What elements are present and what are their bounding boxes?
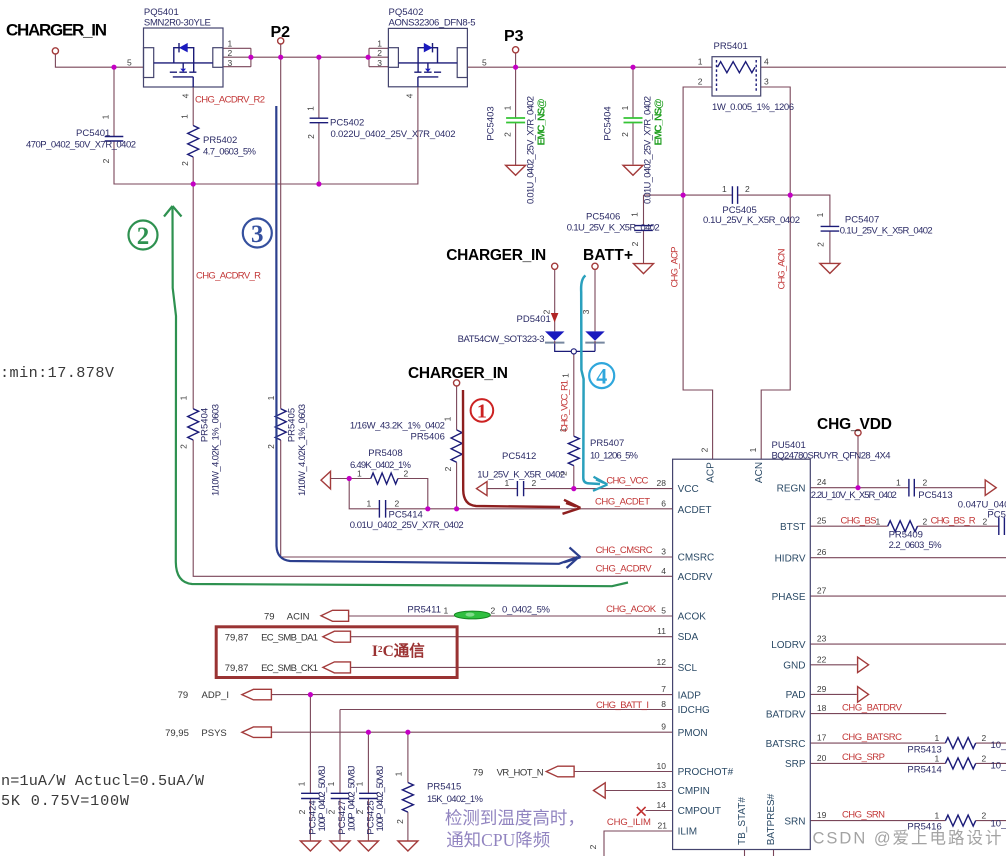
wire net CHG_ACN: [738, 87, 830, 459]
svg-text:ACN: ACN: [754, 462, 765, 483]
wire PC5424 to ground: [309, 799, 311, 842]
wire PHASE: [810, 595, 1006, 597]
svg-text:SCL: SCL: [678, 663, 698, 674]
svg-text:12: 12: [657, 657, 667, 667]
ground below PC5403: [506, 165, 526, 175]
svg-text:1: 1: [101, 114, 111, 119]
svg-text:BATDRV: BATDRV: [766, 709, 806, 720]
capacitor PC5414 0.01U: [350, 499, 464, 531]
annotation circled 3 (navy): [243, 219, 272, 249]
svg-text:PC5412: PC5412: [502, 451, 536, 462]
wire net CHG_SRN: [810, 820, 1006, 822]
wire PC5425 to ground: [367, 799, 369, 842]
svg-text:BQ24780SRUYR_QFN28_4X4: BQ24780SRUYR_QFN28_4X4: [772, 451, 891, 462]
IC pin numbers (right side): [817, 477, 827, 820]
svg-text:1: 1: [935, 753, 940, 763]
svg-text:15K_0402_1%: 15K_0402_1%: [427, 794, 484, 805]
svg-text:TB_STAT#: TB_STAT#: [737, 797, 748, 845]
svg-text:BATPRES#: BATPRES#: [766, 793, 777, 845]
ground below PC5427: [330, 841, 350, 851]
svg-text:1/10W_4.02K_1%_0603: 1/10W_4.02K_1%_0603: [297, 404, 308, 496]
resistor PR5409 2.2 (BTST): [876, 517, 988, 552]
IC pin names (right): [766, 483, 806, 827]
svg-text:0_0402_5%: 0_0402_5%: [502, 605, 551, 616]
svg-text:CHG_ACDRV_R2: CHG_ACDRV_R2: [195, 95, 265, 106]
svg-text:17: 17: [817, 733, 827, 743]
svg-text:2: 2: [137, 223, 150, 250]
svg-text:79,95: 79,95: [165, 728, 189, 739]
svg-text:ADP_I: ADP_I: [202, 690, 229, 701]
transistor PQ5401 SMN2R0-30YLE (P-FET with body diode): [127, 7, 233, 98]
svg-text:2: 2: [377, 48, 382, 58]
svg-text:PC5401: PC5401: [76, 128, 110, 139]
wire net CHG_BATT_I to IDCHG: [340, 710, 673, 794]
wire net EC_SMB_DA1 to SDA: [350, 636, 672, 638]
svg-text:PR5409: PR5409: [889, 530, 923, 541]
annotation green line 2 (ACDRV path) with up arrow: [164, 206, 628, 586]
svg-text:AONS32306_DFN8-5: AONS32306_DFN8-5: [389, 18, 476, 29]
junction dots (solder points): [111, 55, 860, 735]
port arrow (output) REGN right edge: [985, 480, 996, 496]
svg-text:CHG_ACN: CHG_ACN: [777, 248, 788, 289]
svg-text:2: 2: [503, 132, 513, 137]
svg-text:CHG_CMSRC: CHG_CMSRC: [596, 545, 653, 556]
wire net P2 (common source): [223, 44, 673, 557]
svg-text:ACP: ACP: [706, 462, 717, 483]
terminal P3: [513, 47, 519, 53]
svg-text:SRP: SRP: [785, 759, 806, 770]
svg-text:CMSRC: CMSRC: [678, 553, 715, 564]
wire HIDRV: [810, 557, 1006, 559]
svg-text:1: 1: [896, 478, 901, 488]
svg-text:P3: P3: [504, 28, 524, 45]
wire net PSYS to PMON: [271, 732, 672, 793]
svg-text:4.7_0603_5%: 4.7_0603_5%: [203, 147, 257, 158]
PD5401 labels: [458, 309, 591, 378]
resistor PR5402 4.7: [180, 114, 257, 166]
resistor PR5406 43.2K: [350, 416, 462, 471]
svg-text:18: 18: [817, 703, 827, 713]
svg-text:2: 2: [745, 184, 750, 194]
svg-text:通知CPU降频: 通知CPU降频: [446, 830, 550, 850]
wire net ADP_I to IADP: [271, 695, 672, 794]
svg-text:2: 2: [404, 469, 409, 479]
port VR_HOT_N: [546, 766, 574, 777]
annotation I2C box: [216, 627, 457, 678]
svg-text:1: 1: [367, 499, 372, 509]
svg-text:10_1206_5%: 10_1206_5%: [590, 451, 639, 462]
svg-text:PQ5402: PQ5402: [389, 7, 424, 18]
svg-text:BTST: BTST: [780, 522, 806, 533]
svg-text:26: 26: [817, 547, 827, 557]
resistor PR5401 1W 0.005 sense (boxed): [698, 41, 794, 113]
svg-text:EC_SMB_CK1: EC_SMB_CK1: [261, 663, 318, 674]
svg-text:28: 28: [657, 478, 667, 488]
annotation green highlight ellipse over PR5411: [454, 611, 490, 619]
svg-text:PD5401: PD5401: [517, 314, 551, 325]
svg-text:5: 5: [661, 606, 666, 616]
port PSYS: [242, 727, 272, 738]
svg-text:1/16W_43.2K_1%_0402: 1/16W_43.2K_1%_0402: [350, 421, 445, 432]
svg-text:22: 22: [817, 654, 827, 664]
svg-text:2: 2: [588, 844, 598, 849]
svg-text:2: 2: [306, 134, 316, 139]
IC pin numbers (left side): [657, 478, 668, 831]
wire CMPOUT no-connect stub: [646, 810, 673, 812]
wire net CHG_ACOK / ACIN row: [349, 615, 673, 617]
svg-text:1: 1: [377, 39, 382, 49]
capacitor PC5413 2.2U (REGN): [811, 478, 953, 502]
wire net CHG_ACDRV_R2 bus (bottom of PQ5401/PQ5402 gates): [114, 87, 418, 184]
terminal CHARGER_IN (middle): [454, 380, 460, 386]
svg-text:2: 2: [395, 499, 400, 509]
resistor PR5404 4.02K: [179, 395, 222, 496]
svg-text:6: 6: [661, 498, 666, 508]
IC pin numbers (top rotated): [700, 447, 759, 452]
svg-text:PHASE: PHASE: [772, 592, 806, 603]
svg-text:P2: P2: [271, 24, 291, 41]
capacitor PC5403 0.01U EMC: [486, 96, 548, 204]
svg-text:2: 2: [982, 811, 987, 821]
svg-text:19: 19: [817, 810, 827, 820]
svg-text:0.1U_25V_K_X5R_0402: 0.1U_25V_K_X5R_0402: [567, 223, 660, 234]
terminal CHARGER_IN (top middle): [552, 263, 558, 269]
svg-text:CSDN @爱上电路设计: CSDN @爱上电路设计: [813, 829, 1002, 848]
svg-text:ACOK: ACOK: [678, 612, 707, 623]
capacitor PC5405 0.1U: [703, 184, 800, 226]
capacitor PC5406 0.1U: [567, 212, 660, 247]
svg-text:0.1U_25V_K_X5R_0402: 0.1U_25V_K_X5R_0402: [840, 226, 933, 237]
resistor PR5413 10 (BATSRC): [907, 733, 1006, 756]
ground below PR5415: [398, 841, 418, 851]
svg-text:5: 5: [482, 58, 487, 68]
svg-text:1: 1: [935, 811, 940, 821]
svg-text:PU5401: PU5401: [772, 440, 806, 451]
svg-text:14: 14: [657, 800, 667, 810]
svg-text::min:17.878V: :min:17.878V: [0, 364, 115, 382]
svg-text:0.1U_25V_K_X5R_0402: 0.1U_25V_K_X5R_0402: [703, 215, 800, 226]
svg-text:2: 2: [443, 466, 453, 471]
svg-text:1: 1: [306, 106, 316, 111]
resistor PR5408 6.49K: [350, 448, 412, 484]
svg-text:3: 3: [377, 58, 382, 68]
svg-text:2: 2: [327, 809, 337, 814]
svg-text:10_0: 10_0: [991, 760, 1006, 771]
wire mid CHARGER_IN to PR5406: [456, 386, 458, 509]
svg-text:3: 3: [661, 547, 666, 557]
svg-text:1: 1: [443, 416, 453, 421]
svg-text:2: 2: [180, 161, 190, 166]
svg-text:1: 1: [698, 57, 703, 67]
resistor PR5405 4.02K: [266, 395, 308, 496]
svg-text:1W_0.005_1%_1206: 1W_0.005_1%_1206: [712, 102, 794, 113]
port arrow (input) for PR5408 row: [321, 471, 331, 489]
wire PC5406 to ground: [643, 230, 645, 263]
port arrow for CHG_VCC row (PC5412): [477, 482, 488, 496]
svg-text:79: 79: [178, 690, 189, 701]
IC pin names (left): [678, 484, 734, 838]
resistor PR5414 10 (SRP): [907, 753, 1006, 775]
svg-text:PC5413: PC5413: [918, 490, 952, 501]
wire net VR_HOT_N to PROCHOT#: [574, 771, 673, 773]
wire PC5427 to ground: [339, 799, 341, 842]
svg-text:100P_0402_50V8J: 100P_0402_50V8J: [346, 765, 357, 831]
port arrow CMPIN: [594, 783, 606, 799]
svg-text:3: 3: [764, 77, 769, 87]
svg-text:9: 9: [661, 722, 666, 732]
svg-text:1: 1: [620, 105, 630, 110]
svg-text:PR5406: PR5406: [411, 432, 445, 443]
annotation circled 1 (red): [471, 399, 494, 422]
svg-text:79: 79: [264, 612, 275, 623]
svg-text:CHG_VCC: CHG_VCC: [606, 476, 648, 487]
svg-text:2: 2: [179, 444, 189, 449]
svg-text:CHG_VCC_R1: CHG_VCC_R1: [560, 380, 571, 432]
svg-text:1/10W_4.02K_1%_0603: 1/10W_4.02K_1%_0603: [211, 404, 222, 496]
svg-text:PR5402: PR5402: [203, 135, 237, 146]
svg-text:1U_25V_K_X5R_0402: 1U_25V_K_X5R_0402: [477, 470, 565, 481]
svg-text:EMC_NS@: EMC_NS@: [535, 99, 547, 146]
capacitor PC5424 100P: [296, 765, 327, 834]
svg-text:3: 3: [228, 58, 233, 68]
wire BATPRES# bottom stub: [773, 850, 775, 857]
svg-text:BATT+: BATT+: [583, 247, 633, 264]
capacitor PC5407 0.1U: [815, 212, 933, 247]
wire BATT+ to PD5401 anode 3: [594, 270, 596, 332]
svg-text:1: 1: [354, 781, 364, 786]
IC rotated pin names ACP ACN TB_STAT# BATPRES#: [706, 462, 777, 845]
svg-text:100P_0402_50V8J: 100P_0402_50V8J: [375, 765, 386, 831]
svg-text:BATSRC: BATSRC: [766, 739, 806, 750]
wire LODRV: [810, 643, 1006, 645]
svg-text:CHARGER_IN: CHARGER_IN: [6, 21, 107, 40]
svg-text:1: 1: [326, 781, 336, 786]
svg-text:CHG_ACOK: CHG_ACOK: [606, 604, 657, 615]
svg-text:11: 11: [657, 626, 666, 636]
port ADP_I: [242, 689, 272, 700]
svg-text:2: 2: [630, 241, 640, 246]
annotation circled 2 (green): [129, 221, 158, 251]
svg-text:LODRV: LODRV: [771, 640, 806, 651]
port EC_SMB_DA1: [323, 631, 351, 642]
svg-text:3: 3: [251, 221, 264, 248]
wire net ACDET row (PR5408 / PC5414): [330, 479, 672, 509]
svg-text:CMPIN: CMPIN: [678, 786, 710, 797]
svg-text:2: 2: [355, 809, 365, 814]
annotation red down-arrow on CHARGER_IN stub: [551, 313, 559, 323]
svg-text:PR5405: PR5405: [286, 408, 297, 442]
svg-text:CHG_BATSRC: CHG_BATSRC: [842, 732, 902, 743]
svg-text:1: 1: [444, 606, 449, 616]
svg-text:1: 1: [815, 212, 825, 217]
annotation dark red line 1 (ACDET path) with right arrow: [463, 390, 581, 514]
svg-text:SMN2R0-30YLE: SMN2R0-30YLE: [144, 18, 211, 29]
svg-text:79,87: 79,87: [225, 632, 249, 643]
svg-text:ACDET: ACDET: [678, 505, 712, 516]
svg-text:2: 2: [923, 478, 928, 488]
wire CHARGER_IN net (top left): [55, 54, 143, 137]
svg-text:CMPOUT: CMPOUT: [678, 806, 721, 817]
svg-text:PR5408: PR5408: [368, 448, 402, 459]
svg-text:PC5404: PC5404: [603, 106, 614, 140]
svg-text:2: 2: [395, 819, 405, 824]
wire net CHG_ILIM: [604, 831, 673, 856]
wire net CHG_ACP: [644, 87, 733, 459]
wire net CHG_SRP: [810, 762, 1006, 764]
svg-text:I²C通信: I²C通信: [372, 641, 425, 660]
svg-text:PR5404: PR5404: [200, 408, 211, 442]
svg-text:2: 2: [816, 242, 826, 247]
wire net PR5405 lower segment on P2 line: [280, 407, 282, 410]
wire net CHG_ACDRV (left vertical + to pin 4): [193, 184, 672, 576]
svg-text:4: 4: [764, 57, 769, 67]
terminal BATT+: [592, 263, 598, 269]
svg-text:PAD: PAD: [786, 690, 806, 701]
wire PC5404 lower to ground: [632, 123, 634, 165]
svg-text:PC5407: PC5407: [845, 215, 879, 226]
svg-text:检测到温度高时，: 检测到温度高时，: [445, 808, 585, 828]
terminal CHARGER_IN (top-left): [52, 48, 58, 54]
svg-text:REGN: REGN: [777, 483, 806, 494]
svg-text:0.01U_0402_25V_X7R_0402: 0.01U_0402_25V_X7R_0402: [350, 520, 464, 531]
svg-text:PR5401: PR5401: [714, 41, 748, 52]
ground below PC5424: [300, 841, 320, 851]
ground below PC5406: [634, 264, 654, 274]
capacitor PC5425 100P: [354, 765, 385, 834]
svg-text:20: 20: [817, 753, 827, 763]
svg-text:29: 29: [817, 684, 827, 694]
annotation cyan line 4 (CHG_VCC path) with right arrow: [581, 276, 607, 491]
svg-text:PSYS: PSYS: [201, 728, 226, 739]
svg-text:CHG_ACP: CHG_ACP: [670, 247, 681, 288]
svg-text:1: 1: [180, 114, 190, 119]
svg-text:0.022U_0402_25V_X7R_0402: 0.022U_0402_25V_X7R_0402: [331, 129, 456, 140]
svg-text:EC_SMB_DA1: EC_SMB_DA1: [261, 632, 318, 643]
port EC_SMB_CK1: [323, 662, 351, 673]
svg-text:1: 1: [296, 781, 306, 786]
resistor PR5407 10_1206: [558, 427, 639, 476]
ground below PC5404: [623, 165, 643, 175]
resistor PR5416 10 (SRN): [907, 811, 1006, 833]
svg-text:SRN: SRN: [784, 816, 805, 827]
svg-text:24: 24: [817, 477, 827, 487]
port arrow GND pin 22: [858, 657, 869, 673]
terminal P2: [278, 38, 284, 44]
wire TB_STAT# bottom stub: [744, 850, 746, 857]
svg-text:1: 1: [748, 447, 758, 452]
annotation circled 4 (cyan): [589, 363, 614, 388]
port ACIN (off-page, input): [321, 610, 349, 621]
svg-text:PR5407: PR5407: [590, 438, 624, 449]
svg-text:4: 4: [596, 364, 607, 389]
svg-text:1: 1: [722, 184, 727, 194]
svg-text:IDCHG: IDCHG: [678, 705, 710, 716]
svg-text:79,87: 79,87: [225, 663, 249, 674]
wire PAD pin stub: [810, 693, 857, 695]
svg-text:HIDRV: HIDRV: [775, 553, 806, 564]
svg-text:PR5411: PR5411: [407, 605, 441, 616]
svg-text:4: 4: [181, 93, 191, 98]
svg-text:2: 2: [983, 517, 988, 527]
wire net EC_SMB_CK1 to SCL: [350, 666, 672, 668]
svg-text:2: 2: [532, 478, 537, 488]
capacitor PC5427 100P: [326, 765, 357, 834]
svg-text:SDA: SDA: [678, 632, 699, 643]
svg-text:CHG_SRP: CHG_SRP: [842, 752, 885, 763]
svg-text:1: 1: [503, 105, 513, 110]
port arrow PAD pin 29: [858, 687, 869, 703]
wire net P3 / CHARGER_IN_FILT (top): [467, 53, 1006, 118]
svg-text:IADP: IADP: [678, 690, 702, 701]
diode PD5401 BAT54CW dual (left half): [545, 331, 564, 343]
wire PC5407 to ground: [829, 231, 831, 263]
svg-text:CHG_SRN: CHG_SRN: [842, 810, 885, 821]
svg-text:5: 5: [127, 58, 132, 68]
svg-text:ACDRV: ACDRV: [678, 572, 713, 583]
svg-text:CHG_ACDRV: CHG_ACDRV: [596, 564, 653, 575]
svg-text:470P_0402_50V_X7R_0402: 470P_0402_50V_X7R_0402: [26, 140, 136, 151]
svg-text:1: 1: [266, 395, 276, 400]
svg-text:CHG_BS_R: CHG_BS_R: [931, 516, 976, 527]
svg-text:5K 0.75V=100W: 5K 0.75V=100W: [1, 792, 130, 810]
capacitor PC54xx 0.047U at right edge (BTST): [958, 500, 1006, 536]
capacitor PC5401 470P: [26, 114, 136, 163]
svg-text:10_0: 10_0: [991, 740, 1006, 751]
wire net CHG_VCC_R1 (diode common cathode to PR5407): [555, 344, 595, 489]
svg-text:CHG_ILIM: CHG_ILIM: [607, 817, 651, 828]
capacitor PC5402 0.022U: [306, 106, 456, 140]
svg-text:25: 25: [817, 516, 827, 526]
svg-text:CHG_ACDET: CHG_ACDET: [595, 497, 650, 508]
svg-text:1: 1: [228, 39, 233, 49]
svg-text:2: 2: [982, 753, 987, 763]
svg-text:CHG_BATT_I: CHG_BATT_I: [596, 700, 649, 711]
svg-text:PR5415: PR5415: [427, 782, 461, 793]
svg-text:CHARGER_IN: CHARGER_IN: [446, 247, 546, 264]
svg-text:2: 2: [266, 444, 276, 449]
svg-text:PR5414: PR5414: [907, 765, 941, 776]
svg-text:13: 13: [657, 780, 667, 790]
svg-text:79: 79: [473, 767, 484, 778]
svg-text:BAT54CW_SOT323-3: BAT54CW_SOT323-3: [458, 334, 545, 345]
svg-text:2: 2: [228, 48, 233, 58]
transistor PQ5402 AONS32306_DFN8-5 (mirrored): [377, 7, 487, 98]
svg-text:ACIN: ACIN: [287, 612, 310, 623]
svg-text:1: 1: [935, 733, 940, 743]
svg-text:PC5402: PC5402: [330, 118, 364, 129]
svg-text:2.2_0603_5%: 2.2_0603_5%: [889, 540, 943, 551]
svg-text:10_0: 10_0: [991, 819, 1006, 830]
svg-text:GND: GND: [783, 661, 805, 672]
terminal CHG_VDD: [855, 430, 861, 436]
svg-text:CHG_BS: CHG_BS: [841, 516, 877, 527]
svg-text:1: 1: [477, 401, 487, 423]
svg-text:2: 2: [620, 132, 630, 137]
svg-text:PQ5401: PQ5401: [144, 7, 179, 18]
svg-text:ILIM: ILIM: [678, 827, 697, 838]
svg-text:27: 27: [817, 586, 827, 596]
wire PC5403 lower to ground: [515, 123, 517, 166]
svg-text:PC5403: PC5403: [486, 106, 497, 140]
svg-text:CHG_BATDRV: CHG_BATDRV: [842, 703, 903, 714]
svg-text:PMON: PMON: [678, 728, 708, 739]
svg-text:VCC: VCC: [678, 484, 699, 495]
resistor PR5411 0 ohm (ACOK row): [407, 605, 550, 616]
svg-text:2: 2: [923, 517, 928, 527]
svg-text:CHG_ACDRV_R: CHG_ACDRV_R: [196, 271, 261, 282]
svg-text:1: 1: [357, 469, 362, 479]
node PD5401 common cathode junction circle: [571, 349, 576, 354]
